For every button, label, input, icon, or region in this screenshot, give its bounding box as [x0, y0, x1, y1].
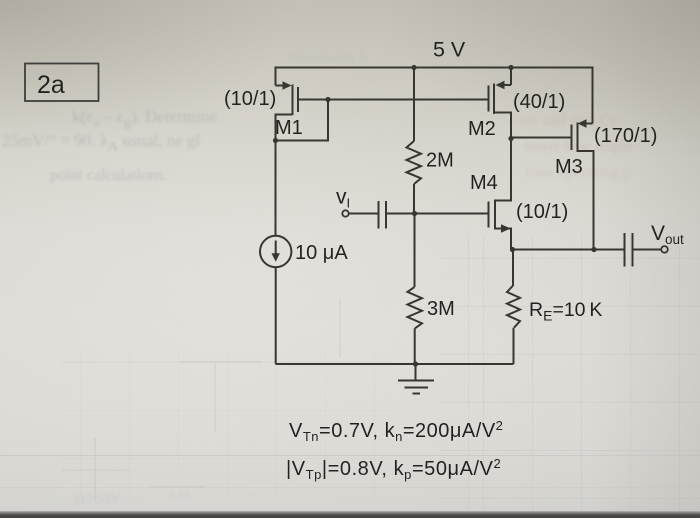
node dot M2 drain / M4 drain / M3 gate: [508, 136, 513, 141]
resistor 2M: [407, 68, 422, 214]
capacitor C2 (output coupling): [625, 233, 633, 267]
node dot: rail to M2 source: [508, 65, 513, 70]
transistor M1 (PMOS, diode-connected): [276, 81, 299, 140]
wire output node: [513, 249, 625, 251]
node dot ground: [413, 361, 418, 366]
wire cap to output terminal: [633, 249, 662, 251]
box 2a: [25, 64, 99, 102]
node dot M3 drain to output: [591, 247, 596, 252]
capacitor C1 (input coupling): [379, 201, 387, 229]
faint reverse-side bleed-through text: [72, 107, 217, 131]
transistor M2 (PMOS): [489, 68, 512, 139]
wire ground rail: [276, 363, 514, 365]
node dot gate/drain of M1: [325, 97, 330, 102]
transistor M4 (NMOS): [415, 139, 511, 250]
current source I1 10uA: [260, 141, 291, 365]
output terminal circle: [661, 246, 668, 253]
device parameters text line 2: [286, 456, 501, 482]
input terminal circle: [342, 210, 348, 216]
wire VDD top rail: [276, 68, 593, 124]
node dot output (M4 source / RE): [510, 247, 515, 252]
input vI label: [336, 186, 350, 211]
resistor 3M: [408, 214, 423, 365]
node VDD: 5 V label: [433, 38, 466, 62]
photo dark bottom edge: [0, 511, 700, 518]
node dot: rail to 2M branch: [411, 65, 416, 70]
wire M1 diode connection: [276, 100, 329, 141]
faint graph grid bleed: [440, 235, 700, 513]
ground symbol: [398, 364, 434, 394]
output vout label: [651, 222, 684, 247]
transistor M3 (PMOS): [572, 119, 594, 249]
wire gate bus M1-M2: [298, 99, 488, 101]
device parameters text line 1: [289, 418, 503, 444]
node dot M1 drain: [273, 138, 278, 143]
wire M2 drain to M3 gate: [511, 137, 572, 139]
wire cap to gate node: [386, 213, 415, 215]
resistor RE: [507, 250, 520, 365]
wire input to cap: [349, 213, 378, 215]
node dot gate of M4 / coupling cap / 2M-3M: [412, 211, 417, 216]
